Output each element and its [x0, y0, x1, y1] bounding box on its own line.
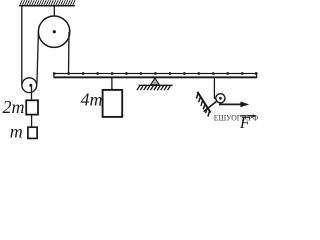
beam tick dots: [53, 72, 258, 75]
beam lever: [54, 74, 257, 78]
wire rope ceiling to small pulley: [21, 6, 23, 85]
svg-text:4m: 4m: [81, 90, 103, 110]
wire string pulley to 2m: [31, 85, 33, 100]
label F vector arrow: [240, 115, 253, 117]
arrow force F: [219, 103, 241, 105]
wire rod ceiling to big pulley axle: [53, 6, 55, 31]
mass 2m block: [26, 100, 38, 114]
wire rope big pulley right down to beam: [68, 32, 71, 74]
pulley small movable: [22, 78, 37, 93]
wire string beam to 4m: [111, 78, 113, 90]
pulley big fixed: [38, 16, 69, 47]
wall bracket line: [197, 92, 210, 113]
ceiling hatching: [20, 0, 75, 5]
fulcrum triangle: [151, 78, 160, 85]
wire rope big pulley left to small pulley right: [37, 32, 39, 85]
mass 4m block: [103, 90, 123, 117]
wire string beam to right pulley: [213, 78, 215, 99]
wire string 2m to m: [31, 115, 33, 128]
strut wall to pulley axle: [204, 98, 221, 111]
ground line under fulcrum: [139, 84, 173, 86]
svg-text:2m: 2m: [3, 97, 25, 117]
svg-text:m: m: [10, 122, 23, 142]
ceiling line: [19, 5, 75, 7]
mass m block: [28, 127, 37, 138]
pulley right small: [216, 94, 225, 103]
svg-text:F: F: [239, 113, 251, 132]
ground hatching: [137, 86, 170, 90]
wall hatching ticks: [196, 94, 209, 117]
svg-text:ЕШУОГЭ.РФ: ЕШУОГЭ.РФ: [214, 114, 258, 123]
